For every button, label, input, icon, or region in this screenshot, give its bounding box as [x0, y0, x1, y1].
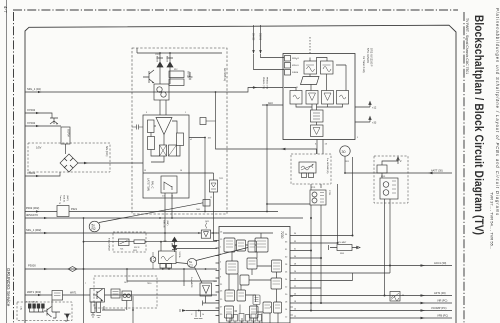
IC pin hooks right bottom [290, 297, 293, 316]
wire block bottom rail [143, 172, 189, 174]
wire mute to IC [186, 310, 219, 312]
svg-text:26: 26 [285, 272, 288, 274]
wire P021 out [69, 211, 278, 213]
wire drop from border a [253, 25, 255, 53]
wire SECAM to filter K [311, 184, 321, 190]
transistor T201 [143, 70, 154, 83]
svg-text:5752: UV1216E/P: 5752: UV1216E/P [370, 48, 372, 67]
IC internal block b15 [240, 275, 249, 285]
IC bottom stubs [230, 313, 278, 323]
svg-text:SRL_1 (04): SRL_1 (04) [27, 87, 41, 91]
cap stubs under mute wire [194, 311, 203, 319]
svg-text:30: 30 [342, 150, 346, 154]
svg-text:EL/D (SAT)-B: EL/D (SAT)-B [26, 301, 38, 304]
svg-text:TV PART - Signal Chassis CUC 7: TV PART - Signal Chassis CUC 7301 [465, 18, 469, 74]
phase block [169, 145, 177, 156]
page left edge line [6, 0, 8, 323]
svg-text:31: 31 [285, 249, 288, 251]
resistor R821 [97, 302, 101, 313]
svg-text:VOCA: VOCA [178, 252, 181, 259]
AFC filter 2351 [380, 178, 398, 199]
box 1077 [111, 289, 120, 298]
stub arrows on left nets [38, 91, 42, 93]
svg-text:(SAT): (SAT) [166, 220, 169, 226]
IC internal block b5 [226, 261, 238, 274]
svg-text:26: 26 [294, 271, 296, 273]
svg-text:XY002: XY002 [27, 121, 36, 125]
wire pins to bus [163, 268, 169, 269]
svg-text:28: 28 [294, 264, 296, 266]
svg-text:18: 18 [285, 302, 288, 304]
coil filter 2311 [299, 162, 316, 173]
svg-text:7121: 7121 [219, 178, 223, 180]
svg-text:11: 11 [171, 196, 174, 198]
leader down from circle 31 [195, 267, 203, 283]
svg-text:302/06: 302/06 [259, 33, 261, 41]
svg-text:1077: 1077 [124, 282, 128, 284]
svg-text:1k: 1k [202, 314, 204, 316]
switch block S1 [161, 176, 177, 193]
svg-text:7: 7 [220, 269, 222, 271]
svg-text:PAL-C: PAL-C [151, 181, 155, 189]
vertical feed x133 [132, 296, 134, 323]
svg-text:182: 182 [208, 138, 212, 140]
video filter block L801 [159, 251, 177, 264]
svg-text:7061: 7061 [196, 209, 200, 211]
transistor circle T851 [150, 257, 156, 263]
mixer M2 [321, 61, 334, 74]
ground T810 [91, 313, 101, 318]
tuner box 2300 [283, 54, 355, 140]
IC left pin ticks [216, 233, 220, 316]
svg-text:2: 2 [400, 159, 402, 163]
wire diode unit to rail [189, 173, 214, 180]
wire pin26 [294, 272, 391, 274]
svg-text:MHz: MHz [171, 243, 173, 247]
wire amp A2 to IC [203, 301, 220, 306]
arrowheads on drops [252, 50, 261, 54]
svg-text:Pcut MUTE: Pcut MUTE [190, 277, 193, 288]
switch box S2 [119, 239, 130, 246]
IC internal block b10 [263, 302, 272, 313]
transistor T801 [50, 118, 58, 124]
wire AFT1 [294, 295, 453, 297]
svg-text:4RV10/70: 4RV10/70 [26, 213, 38, 217]
svg-text:22: 22 [285, 287, 288, 289]
svg-text:P3000: P3000 [28, 264, 36, 268]
mixer X1 [160, 145, 167, 156]
svg-text:C731: C731 [328, 190, 330, 196]
svg-text:5: 5 [357, 137, 358, 139]
svg-text:SHK05: SHK05 [252, 33, 254, 41]
svg-text:34: 34 [294, 233, 296, 235]
wire SRL_1(04) [25, 88, 283, 93]
misc junction dots [159, 217, 161, 219]
junction dots on SRL bus [198, 232, 214, 234]
wire H feed [160, 242, 162, 251]
dashed group AFC [374, 156, 408, 203]
wire WAT1 [25, 294, 52, 296]
svg-text:30: 30 [294, 256, 296, 258]
wire M down a [384, 199, 386, 296]
transistor T830 [44, 307, 52, 318]
IC right pin ticks [290, 236, 294, 319]
diode D202 [167, 53, 173, 84]
svg-text:47: 47 [59, 203, 61, 205]
resistor R201 [169, 71, 184, 78]
svg-text:F741: F741 [381, 176, 385, 178]
resistor R203 [148, 120, 155, 133]
supply stub +12 [355, 102, 371, 108]
IC internal block b11 [274, 302, 282, 313]
wire input rail [137, 48, 222, 53]
svg-text:WAT1 (302): WAT1 (302) [27, 290, 41, 294]
svg-text:7: 7 [85, 283, 86, 285]
svg-text:2311: 2311 [345, 161, 349, 163]
IF amp block box [143, 115, 189, 198]
svg-text:5UB 01: 5UB 01 [63, 195, 65, 203]
amp A2 [200, 283, 212, 296]
diode pair D860 [172, 237, 177, 252]
box 2341 [377, 165, 387, 173]
leader line from circle 32 [99, 203, 203, 223]
sheet ref circle 30 [340, 146, 350, 156]
svg-text:7230: 7230 [280, 231, 284, 239]
svg-text:5UB_01: 5UB_01 [163, 220, 165, 228]
svg-text:P021: P021 [71, 207, 78, 211]
wire 7041 to T820 [63, 294, 91, 296]
tuner pin square 2 [285, 63, 291, 69]
wire IF tap down [216, 92, 317, 154]
wire pin24 [294, 273, 353, 281]
svg-text:18: 18 [294, 301, 296, 303]
svg-text:5951: 5951 [133, 250, 137, 252]
mixer M1 [304, 61, 317, 74]
arrow AATT [428, 172, 433, 175]
wire M down b [389, 199, 391, 273]
output amp block [311, 125, 324, 137]
wire VCOMP [294, 310, 453, 312]
wire drop from border b [260, 25, 262, 53]
wire K down b [320, 205, 322, 303]
IC internal block b7 [271, 278, 282, 289]
IC 7230 outline [219, 227, 290, 323]
chain border left [13, 12, 15, 323]
svg-text:R12: R12 [174, 69, 177, 71]
arrow VFB [421, 317, 426, 320]
wire pin22 [294, 287, 322, 289]
PLL block [311, 110, 324, 122]
wire IF out [189, 138, 205, 212]
svg-text:SRL_1 (302): SRL_1 (302) [26, 228, 41, 232]
svg-text:31: 31 [294, 249, 296, 251]
svg-text:R2: R2 [92, 227, 96, 231]
svg-text:23: 23 [220, 291, 223, 293]
ground stub [53, 318, 67, 321]
dashed group bottom-left [17, 302, 72, 321]
svg-text:LA7577(M): LA7577(M) [147, 178, 151, 191]
svg-text:7D1: 7D1 [120, 249, 123, 251]
IF filter 2731 [310, 190, 326, 205]
svg-text:x1: x1 [190, 139, 192, 141]
svg-text:13: 13 [144, 170, 146, 172]
svg-text:Ant 322B my: Ant 322B my [223, 68, 226, 82]
coupler box pair [122, 291, 132, 301]
amp block A3 [306, 91, 318, 105]
IC internal block b3 [248, 241, 257, 252]
svg-text:AFT1 (30): AFT1 (30) [434, 291, 446, 295]
connector pin row [28, 304, 31, 309]
svg-text:VIR (PC): VIR (PC) [437, 299, 448, 303]
wire amp chain [205, 296, 207, 303]
arrow up 2 [397, 157, 400, 164]
riser x352 [352, 157, 354, 236]
svg-text:3301: 3301 [340, 253, 344, 255]
svg-text:1% MET: 1% MET [338, 242, 347, 244]
wire audio out [102, 301, 127, 311]
svg-text:For Tuner 2 only: For Tuner 2 only [362, 56, 365, 74]
svg-text:1: 1 [220, 247, 222, 249]
wire AATT [345, 157, 452, 174]
svg-text:(SAT): (SAT) [66, 195, 69, 201]
IC internal block b9 [237, 290, 246, 301]
wire pin34 to riser352 [294, 235, 353, 237]
arrow AFT1 [421, 294, 426, 297]
svg-text:27: 27 [220, 307, 223, 309]
cap on input [132, 125, 143, 130]
svg-text:P002 (302): P002 (302) [26, 206, 39, 210]
arrow on IF tap [281, 148, 286, 150]
riser x184 [183, 269, 185, 286]
svg-text:AATT (30): AATT (30) [431, 169, 443, 173]
svg-text:1/5V: 1/5V [36, 146, 42, 150]
osc block O1 [290, 91, 302, 105]
svg-text:11: 11 [296, 87, 298, 89]
coil squiggle above V1 [205, 223, 207, 229]
svg-text:14: 14 [285, 309, 288, 311]
svg-text:1: 1 [296, 59, 297, 61]
svg-text:7D5: 7D5 [213, 281, 216, 283]
cap to ground sym [188, 72, 193, 79]
transistor box T820 [90, 289, 105, 303]
resistor R820 [91, 302, 95, 313]
wire ZF bus a [84, 241, 218, 243]
stray tick labels [59, 54, 404, 318]
svg-text:4-7: 4-7 [3, 6, 8, 13]
svg-text:B/G (D/K): B/G (D/K) [105, 146, 108, 157]
arrow ACC1 [421, 264, 426, 267]
svg-text:Platinenabbildungen und Schalt: Platinenabbildungen und Schaltpläne / La… [495, 8, 500, 216]
tuner internal wires [284, 58, 346, 126]
svg-text:XY002: XY002 [27, 108, 36, 112]
resistor R801 vertical box [61, 127, 70, 144]
IC internal block b1 [224, 238, 235, 252]
wire filter to ref31 [176, 263, 187, 264]
svg-text:1171: 1171 [163, 241, 167, 243]
op-amp A1 [156, 118, 172, 135]
resistor R330 assembly [329, 245, 361, 250]
sheet ref circle 32 [89, 221, 100, 232]
wire pin33 to riser337 [294, 242, 338, 244]
pin boxes under filter [160, 264, 166, 269]
svg-text:21: 21 [220, 284, 223, 286]
wire P3000 [25, 268, 217, 270]
wire VFB [294, 317, 453, 319]
svg-text:F731: F731 [311, 187, 315, 189]
svg-text:VFB (PC): VFB (PC) [437, 314, 448, 318]
arrow on SRL wire [253, 86, 257, 88]
svg-text:30: 30 [285, 257, 288, 259]
wires in group [30, 300, 68, 321]
chain border top [13, 9, 458, 11]
svg-text:12: 12 [210, 197, 212, 199]
dashed tuner-input group [132, 48, 227, 214]
wire to tuner pins [254, 54, 285, 70]
internal wires opamp [151, 121, 180, 162]
resistor R205 [177, 133, 184, 146]
svg-text:+33: +33 [372, 122, 377, 125]
wire from switch pin b [171, 193, 173, 218]
filter FL201 [154, 84, 169, 100]
tuner pin square 1 [285, 56, 291, 62]
svg-text:VN002: VN002 [27, 171, 36, 175]
svg-text:13: 13 [325, 144, 328, 146]
svg-text:33: 33 [294, 241, 296, 243]
main frame [25, 25, 456, 323]
svg-text:25: 25 [220, 299, 223, 301]
svg-text:Tuner: Tuner [59, 195, 62, 201]
arrow VIR [421, 302, 426, 305]
svg-text:GRUNDIG Service: GRUNDIG Service [6, 268, 11, 307]
IC internal block b4 [255, 238, 268, 252]
wire AGC into tuner [262, 104, 283, 106]
svg-text:24: 24 [285, 279, 288, 281]
tuner pin square 3 [285, 70, 291, 76]
svg-text:15: 15 [220, 239, 223, 241]
svg-text:1021: 1021 [205, 221, 209, 223]
IC internal block b12 [250, 306, 259, 318]
svg-text:Blockschaltplan / Block Circui: Blockschaltplan / Block Circuit Diagram … [472, 15, 485, 235]
svg-text:29: 29 [220, 314, 223, 316]
riser x127 to bus [127, 269, 217, 281]
chain border right [463, 12, 465, 323]
sheet ref circle 31 [187, 258, 196, 267]
IC P021 box [57, 206, 69, 217]
diode bridge D801 [60, 154, 78, 172]
wire ZF bus b [175, 248, 218, 250]
svg-text:14: 14 [294, 309, 296, 311]
wire XY002 a [25, 113, 52, 118]
wire VN002 [25, 172, 60, 176]
svg-text:For SECAM (R): For SECAM (R) [326, 158, 329, 174]
wire pin31 [294, 250, 312, 252]
dashed group AV switch [113, 232, 146, 252]
dashed group 1/5V [28, 143, 110, 172]
resistor R204 [148, 137, 155, 150]
svg-text:16: 16 [220, 232, 223, 234]
svg-text:5: 5 [220, 262, 222, 264]
connector symbol on P3000 [68, 267, 77, 272]
svg-text:29: 29 [402, 295, 404, 297]
arrow VCOMP [421, 309, 426, 312]
wire tuner out pins [317, 140, 323, 155]
svg-text:5751: UV916S: 5751: UV916S [366, 48, 368, 63]
diode unit 1N4148 box [210, 180, 218, 192]
svg-text:28: 28 [285, 264, 288, 266]
svg-text:BA423: BA423 [166, 56, 169, 63]
svg-text:TVR 37... , TVR 54... , TVR 55: TVR 37... , TVR 54... , TVR 55... [490, 192, 495, 249]
svg-text:J (A): J (A) [20, 306, 23, 310]
svg-text:33: 33 [285, 242, 288, 244]
svg-text:C: C [191, 314, 193, 316]
wire P021 riser [267, 105, 310, 212]
wire P002 [25, 211, 57, 213]
dashed group SECAM [291, 154, 331, 184]
wire from switch pin a [164, 193, 166, 242]
IC internal block b14 [247, 258, 257, 269]
diode D201 [157, 53, 163, 84]
riser x337 [337, 184, 339, 243]
dashed antenna feed [309, 37, 311, 54]
svg-text:5UB-M: 5UB-M [292, 72, 299, 74]
svg-text:MSP34: MSP34 [67, 129, 70, 138]
component 1021 box [203, 200, 210, 207]
wire VIR [294, 302, 453, 304]
svg-text:16: 16 [180, 170, 182, 172]
svg-text:20: 20 [294, 294, 296, 296]
svg-text:20: 20 [285, 294, 288, 296]
cap C210 box [200, 118, 206, 125]
buffer amp V1 on SRL bus [201, 230, 210, 238]
wire from diode unit [214, 192, 218, 241]
IC internal block b8 [225, 290, 235, 301]
wire pin30 [294, 257, 322, 259]
IC internal block b13 [225, 306, 234, 318]
svg-text:VCOMP (PC): VCOMP (PC) [431, 306, 447, 310]
arrow mute [182, 309, 187, 312]
pins under coil [302, 173, 307, 178]
wire 2341 link [382, 161, 398, 178]
svg-text:9: 9 [146, 112, 147, 114]
IC bottom component row [227, 314, 232, 321]
svg-text:34: 34 [285, 234, 288, 236]
wire filter to opamp [160, 100, 166, 115]
svg-text:+12: +12 [372, 107, 377, 110]
diode D830 [64, 314, 71, 318]
svg-text:9: 9 [220, 277, 222, 279]
wire from R801 down [65, 144, 67, 154]
wire K down a [310, 205, 312, 311]
mixer ref box [390, 292, 400, 302]
dashed group sound mute [94, 276, 157, 308]
svg-text:12: 12 [285, 317, 288, 319]
resistor R860 [134, 240, 145, 244]
wire XY002 b [25, 125, 61, 127]
svg-text:3D2 R: 3D2 R [134, 247, 140, 249]
svg-text:C2: C2 [189, 264, 193, 268]
osc block O2 [337, 91, 349, 105]
supply stub +33 [355, 117, 371, 123]
svg-text:PMB01 (TV): PMB01 (TV) [262, 77, 264, 89]
svg-text:PMB02 (TV): PMB02 (TV) [266, 77, 268, 89]
wire SRL_1(302) [25, 232, 217, 234]
wire T820 out [105, 294, 218, 296]
resistor R202 [169, 79, 184, 86]
svg-text:22: 22 [294, 286, 296, 288]
svg-text:WAT1: WAT1 [70, 292, 77, 295]
IC internal wires [223, 233, 277, 312]
svg-text:B (D) (SAT)-B: B (D) (SAT)-B [108, 238, 111, 251]
